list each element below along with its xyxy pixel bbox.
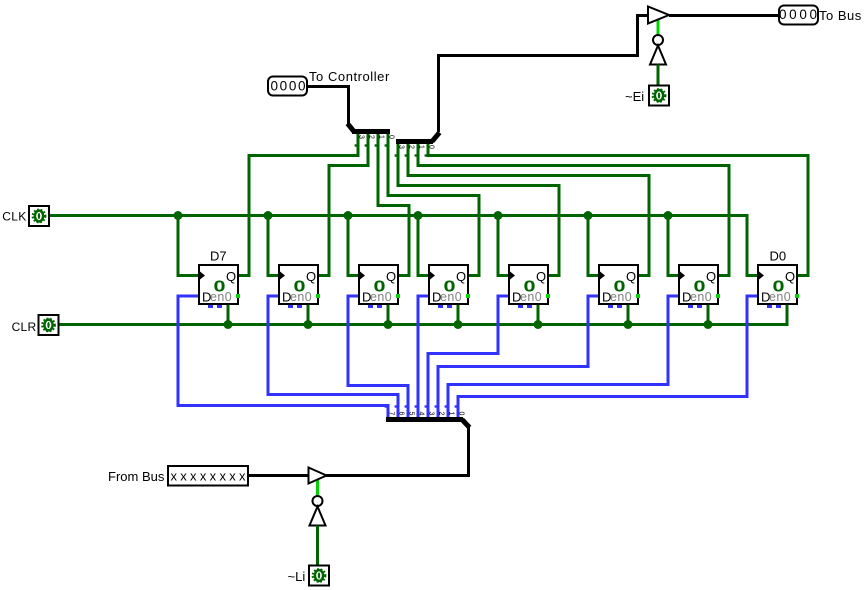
input pin ~Ei: [649, 86, 669, 106]
svg-text:x: x: [219, 469, 226, 484]
splitter S2 pin 1 end tick: [415, 154, 417, 156]
tri-state buffer EI: [648, 7, 669, 24]
splitter S1 (4-bit, Q7-Q4): [348, 124, 391, 132]
wire FF2 Q to splitter pin 2: [319, 132, 368, 276]
svg-text:x: x: [170, 469, 177, 484]
D flip-flop U2 (D6): [279, 265, 320, 308]
wire FF4 async pin to CLR line: [457, 305, 460, 325]
svg-text:4: 4: [418, 412, 425, 416]
svg-text:3: 3: [428, 412, 435, 416]
svg-text:To Controller: To Controller: [309, 69, 390, 84]
wire buffer EI to To Bus pin: [669, 14, 779, 17]
svg-text:en0: en0: [520, 290, 542, 304]
wire FF3 Q to splitter pin 1: [378, 132, 409, 276]
svg-text:2: 2: [408, 145, 415, 149]
inverter (NOT gate) for ~Ei: [650, 35, 666, 65]
junction CLK / FF3: [344, 211, 353, 220]
wire FF6 async pin to CLR line: [627, 305, 630, 325]
svg-text:en0: en0: [690, 290, 712, 304]
svg-text:1: 1: [448, 412, 455, 416]
svg-text:Q: Q: [536, 269, 546, 284]
svg-text:D7: D7: [210, 249, 227, 264]
wire CLR bus line: [59, 305, 787, 325]
D flip-flop U1 (D7): [199, 265, 240, 308]
svg-text:x: x: [239, 469, 246, 484]
svg-text:en0: en0: [210, 290, 232, 304]
svg-text:CLR: CLR: [12, 320, 37, 334]
svg-text:en0: en0: [610, 290, 632, 304]
svg-text:Q: Q: [226, 269, 236, 284]
svg-text:0: 0: [270, 79, 278, 94]
D flip-flop U7 (D1): [679, 265, 720, 308]
wire tri-state buffer LI output to splitter S3: [326, 427, 469, 476]
wire FF3 async pin to CLR line: [387, 305, 390, 325]
svg-text:x: x: [210, 469, 217, 484]
wire CLK bus line: [49, 216, 757, 276]
splitter S3 pin 4 end tick: [415, 405, 417, 407]
wire FF6 Q to splitter pin 2: [408, 142, 649, 276]
svg-text:D0: D0: [770, 249, 787, 264]
svg-text:Q: Q: [386, 269, 396, 284]
wire FF2 async pin to CLR line: [307, 305, 310, 325]
splitter S3 pin 0 end tick: [455, 405, 457, 407]
input pin From Bus (8-bit): [168, 466, 248, 486]
svg-text:0: 0: [779, 7, 787, 22]
svg-text:To Bus: To Bus: [819, 8, 862, 23]
svg-text:Q: Q: [456, 269, 466, 284]
svg-text:5: 5: [408, 412, 415, 416]
wire FF7 async pin to CLR line: [707, 305, 710, 325]
wire From-Bus bit5 to FF3 D input: [348, 296, 408, 418]
splitter S3 pin 6 end tick: [395, 405, 397, 407]
svg-text:0: 0: [280, 79, 288, 94]
wire CLK drop to FF5 clock: [498, 216, 508, 276]
svg-text:0: 0: [789, 7, 797, 22]
junction CLR / FF4: [454, 320, 463, 329]
svg-text:en0: en0: [440, 290, 462, 304]
wire splitter S2 to tri-state buffer EI: [439, 16, 649, 133]
D flip-flop U3 (D5): [359, 265, 400, 308]
wire From-Bus bit4 to FF4 D input: [418, 296, 428, 418]
svg-text:x: x: [200, 469, 207, 484]
junction CLR / FF5: [534, 320, 543, 329]
splitter S1 pin 0 end tick: [385, 144, 387, 146]
svg-text:x: x: [190, 469, 197, 484]
svg-text:3: 3: [398, 145, 405, 149]
junction CLK / FF7: [664, 211, 673, 220]
input pin CLK: [29, 206, 49, 226]
svg-text:Q: Q: [306, 269, 316, 284]
input pin ~Li: [309, 566, 329, 586]
svg-text:0: 0: [388, 135, 395, 139]
wire enable (logic 1) inverter to buffer EI: [657, 19, 660, 35]
wire FF1 async pin to CLR line: [227, 305, 230, 325]
splitter S3 pin 5 end tick: [405, 405, 407, 407]
svg-text:0: 0: [799, 7, 807, 22]
wire CLK drop to FF1 clock: [178, 216, 198, 276]
D flip-flop U8 (D0): [758, 265, 799, 308]
svg-text:0: 0: [428, 145, 435, 149]
wire From-Bus bit0 to FF8 D input: [458, 296, 757, 418]
junction CLK / FF5: [494, 211, 503, 220]
splitter S2 pin 0 end tick: [425, 154, 427, 156]
wire FF5 Q to splitter pin 3: [398, 142, 559, 276]
wire FF1 Q to splitter pin 3: [239, 132, 358, 276]
junction CLR / FF6: [624, 320, 633, 329]
svg-text:~Ei: ~Ei: [625, 89, 644, 104]
svg-text:3: 3: [358, 135, 365, 139]
wire ~Li pin to inverter: [316, 526, 319, 566]
svg-text:6: 6: [398, 412, 405, 416]
splitter S2 (4-bit, Q3-Q0): [396, 133, 440, 142]
wire FF5 async pin to CLR line: [537, 305, 540, 325]
splitter S3 pin 3 end tick: [425, 405, 427, 407]
svg-text:2: 2: [368, 135, 375, 139]
D flip-flop U6 (D2): [599, 265, 640, 308]
wire CLK drop to FF4 clock: [418, 216, 428, 276]
junction CLR / FF3: [384, 320, 393, 329]
inverter (NOT gate) for ~Li: [310, 496, 326, 526]
splitter S1 pin 2 end tick: [365, 144, 367, 146]
junction CLK / FF1: [174, 211, 183, 220]
wire To Controller pin to splitter S1: [308, 87, 349, 125]
svg-text:x: x: [180, 469, 187, 484]
D flip-flop U5 (D3): [509, 265, 550, 308]
junction CLK / FF6: [584, 211, 593, 220]
svg-text:1: 1: [418, 145, 425, 149]
svg-text:0: 0: [289, 79, 297, 94]
wire From-Bus bit1 to FF7 D input: [448, 296, 678, 418]
svg-text:From Bus: From Bus: [108, 469, 165, 484]
svg-text:en0: en0: [370, 290, 392, 304]
splitter S3 pin 1 end tick: [445, 405, 447, 407]
splitter S3 pin 7 end tick: [385, 405, 387, 407]
wire CLK drop to FF3 clock: [348, 216, 358, 276]
junction CLR / FF7: [704, 320, 713, 329]
D flip-flop U4 (D4): [429, 265, 470, 308]
svg-text:en0: en0: [769, 290, 791, 304]
svg-text:Q: Q: [706, 269, 716, 284]
svg-text:Q: Q: [785, 269, 795, 284]
wire ~Ei pin to inverter: [657, 65, 660, 86]
splitter S2 pin 2 end tick: [405, 154, 407, 156]
svg-text:en0: en0: [290, 290, 312, 304]
tri-state buffer LI: [309, 468, 327, 484]
wire From-Bus bit2 to FF6 D input: [438, 296, 598, 418]
svg-text:0: 0: [458, 412, 465, 416]
wire enable (logic 1) inverter to buffer LI: [316, 479, 319, 496]
splitter S3 pin 2 end tick: [435, 405, 437, 407]
svg-text:0: 0: [810, 7, 818, 22]
input pin CLR: [39, 315, 59, 335]
splitter S2 pin 3 end tick: [395, 154, 397, 156]
svg-text:~Li: ~Li: [288, 569, 306, 584]
splitter S1 pin 1 end tick: [375, 144, 377, 146]
wire From-Bus bit3 to FF5 D input: [428, 296, 508, 418]
splitter S1 pin 3 end tick: [355, 144, 357, 146]
junction CLK / FF2: [264, 211, 273, 220]
wire CLK drop to FF7 clock: [668, 216, 678, 276]
svg-text:CLK: CLK: [2, 210, 26, 224]
splitter S3 (8-bit From Bus): [386, 420, 470, 428]
svg-text:7: 7: [388, 412, 395, 416]
svg-text:x: x: [229, 469, 236, 484]
wire FF4 Q to splitter pin 0: [388, 132, 479, 276]
wire From-Bus bit6 to FF2 D input: [268, 296, 398, 418]
wire FF7 Q to splitter pin 1: [418, 142, 729, 276]
svg-text:0: 0: [298, 79, 306, 94]
svg-text:Q: Q: [626, 269, 636, 284]
svg-text:2: 2: [438, 412, 445, 416]
wire FF8 Q to splitter pin 0: [428, 142, 808, 276]
output pin To Controller (4-bit): [268, 77, 307, 96]
junction CLR / FF1: [224, 320, 233, 329]
wire From-Bus bit7 to FF1 D input: [178, 296, 388, 418]
junction CLR / FF2: [304, 320, 313, 329]
output pin To Bus (4-bit): [779, 6, 818, 25]
wire CLK drop to FF2 clock: [268, 216, 278, 276]
svg-text:1: 1: [378, 135, 385, 139]
wire From Bus pin to buffer LI: [248, 474, 309, 477]
wire CLK drop to FF6 clock: [588, 216, 598, 276]
junction CLK / FF4: [414, 211, 423, 220]
